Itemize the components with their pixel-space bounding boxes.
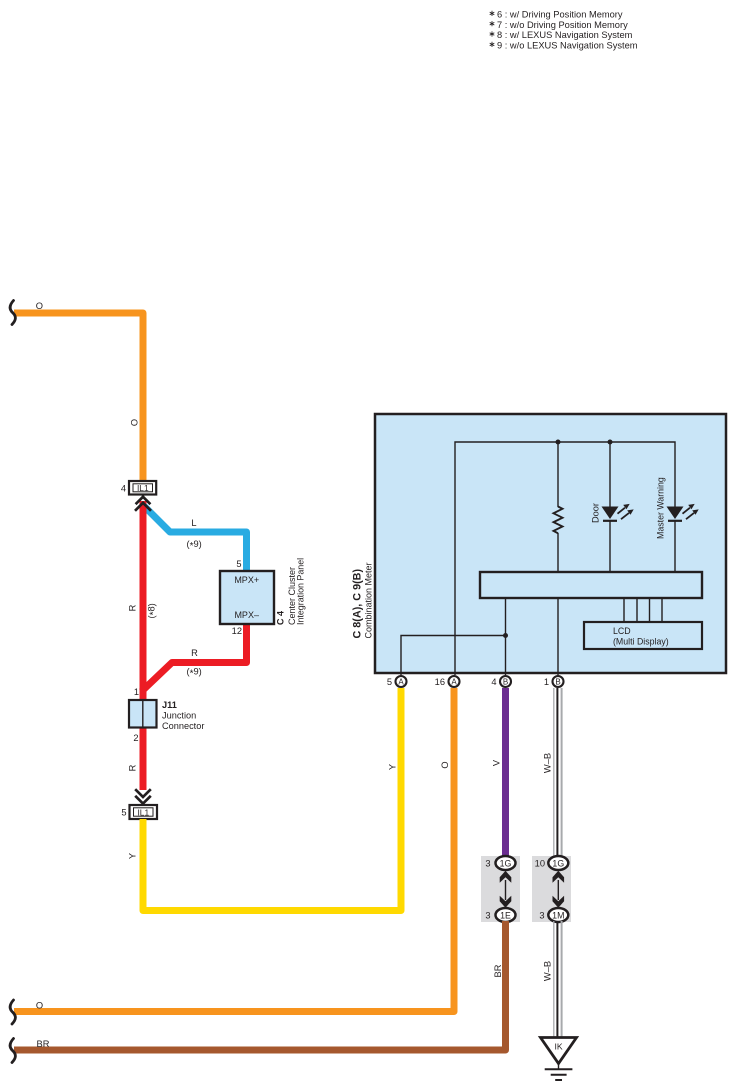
svg-text:R: R [128, 764, 138, 771]
svg-text:Integration Panel: Integration Panel [296, 558, 306, 625]
svg-text:Connector: Connector [162, 721, 204, 731]
ground IK [541, 1038, 577, 1081]
wire BR brown [14, 921, 506, 1050]
LED Door indicator [602, 504, 634, 521]
svg-text:8 : w/ LEXUS Navigation System: 8 : w/ LEXUS Navigation System [497, 30, 633, 40]
svg-text:(Multi Display): (Multi Display) [613, 637, 669, 647]
wire: Door LED leg [609, 442, 611, 507]
svg-text:1G: 1G [500, 858, 512, 868]
wire L blue (*9) [142, 504, 247, 573]
svg-text:V: V [492, 759, 502, 766]
svg-text:1: 1 [544, 677, 549, 687]
svg-text:5: 5 [236, 559, 241, 569]
wire: meter internal top bus [455, 442, 675, 675]
junction connector J11 [129, 700, 204, 731]
svg-text:1E: 1E [500, 910, 511, 920]
svg-text:1G: 1G [552, 858, 564, 868]
svg-text:C 8(A), C 9(B): C 8(A), C 9(B) [352, 569, 364, 639]
svg-text:(*9): (*9) [187, 667, 202, 680]
resistor (meter internal) [554, 507, 563, 534]
LED Master Warning indicator [667, 504, 699, 521]
meter pin circle 5(A) [387, 676, 407, 687]
wire R red from MPX- pin 12 [142, 623, 247, 692]
svg-text:2: 2 [133, 733, 138, 743]
svg-text:10: 10 [535, 858, 545, 868]
svg-text:16: 16 [435, 677, 445, 687]
svg-text:IL1: IL1 [137, 483, 149, 493]
connector oval 1G (right block top) [535, 856, 569, 870]
svg-text:5: 5 [121, 808, 126, 818]
connector block 1G/1E (gray) [481, 856, 520, 922]
svg-text:Door: Door [590, 503, 600, 523]
svg-text:3: 3 [485, 858, 490, 868]
svg-text:Combination Meter: Combination Meter [364, 562, 374, 638]
wire Y yellow [143, 688, 401, 911]
svg-text:B: B [555, 677, 560, 686]
combination meter box C8(A) C9(B) [375, 414, 726, 673]
svg-text:IK: IK [554, 1042, 562, 1052]
wire: Master Warning LED leg [674, 506, 676, 508]
meter pin circle 4(B) [491, 676, 511, 687]
svg-text:IL1: IL1 [137, 807, 149, 817]
svg-text:4: 4 [121, 483, 126, 493]
svg-text:MPX–: MPX– [234, 610, 259, 620]
svg-text:A: A [398, 677, 404, 686]
mating arrows inside 1G/1M block [553, 871, 565, 908]
svg-text:O: O [36, 301, 43, 311]
svg-text:7 : w/o Driving Position Memor: 7 : w/o Driving Position Memory [497, 20, 628, 30]
svg-text:Y: Y [128, 853, 138, 859]
label C 4 Center Cluster Integration Panel [276, 558, 306, 625]
connector oval 1G (left block top) [485, 856, 515, 870]
break symbol bottom-left brown [10, 1039, 15, 1063]
svg-text:R: R [128, 604, 138, 611]
wire: leg from bus bar to pin 1(B) [557, 598, 559, 675]
svg-text:9 : w/o LEXUS Navigation Syste: 9 : w/o LEXUS Navigation System [497, 41, 638, 51]
svg-text:1M: 1M [552, 910, 564, 920]
break symbol top-left [10, 301, 15, 325]
svg-text:W–B: W–B [543, 961, 553, 981]
svg-text:O: O [36, 1000, 43, 1010]
wire: resistor branch leg [557, 442, 559, 507]
connector oval 1M (right block bottom) [539, 908, 568, 922]
svg-text:W–B: W–B [543, 753, 553, 773]
connector block 1G/1M (gray) [532, 856, 571, 922]
svg-text:J11: J11 [162, 700, 177, 710]
svg-text:(*8): (*8) [147, 603, 160, 618]
svg-text:Master Warning: Master Warning [656, 477, 666, 539]
wire O orange top [14, 313, 143, 482]
svg-text:B: B [503, 677, 508, 686]
break symbol bottom-left orange [10, 1000, 15, 1024]
svg-text:12: 12 [232, 626, 242, 636]
svg-text:Junction: Junction [162, 711, 196, 721]
svg-text:3: 3 [485, 910, 490, 920]
wires: bus bar to LCD legs [624, 598, 662, 622]
connector mating arrows (up) below IL1 top [135, 497, 151, 511]
svg-text:C 4: C 4 [276, 611, 286, 625]
svg-text:1: 1 [134, 687, 139, 697]
meter internal bus bar block [480, 572, 702, 598]
meter pin circle 16(A) [435, 676, 460, 687]
wire R red main vertical [140, 501, 147, 790]
svg-text:6 : w/ Driving Position Memory: 6 : w/ Driving Position Memory [497, 10, 623, 20]
connector C4 MPX box [220, 571, 274, 624]
LCD (Multi Display) block [584, 622, 702, 649]
svg-text:R: R [191, 648, 198, 658]
connector IL1 bottom (pin 5) [121, 803, 157, 819]
connector mating arrows (down) above IL1 bottom [135, 789, 151, 803]
svg-text:O: O [440, 761, 450, 768]
connector oval 1E (left block bottom) [485, 908, 515, 922]
node junction dot at Door branch [608, 440, 613, 445]
svg-text:(*9): (*9) [187, 539, 202, 552]
svg-text:Y: Y [388, 764, 398, 770]
wire W-B from pin 1(B) [554, 688, 562, 857]
node junction dot at resistor branch [556, 440, 561, 445]
svg-text:LCD: LCD [613, 626, 631, 636]
wire: leg from bus bar to pin 4(B) [505, 598, 507, 675]
svg-text:BR: BR [493, 964, 503, 977]
wire: branch to pin 5(A) [401, 636, 506, 676]
wire V violet from pin 4(B) [502, 688, 509, 858]
svg-text:4: 4 [491, 677, 496, 687]
svg-text:A: A [451, 677, 457, 686]
wire W-B lower [554, 921, 562, 1038]
mating arrows inside 1G/1E block [500, 871, 512, 908]
legend asterisks [490, 11, 495, 47]
svg-text:O: O [129, 419, 139, 426]
label C 8(A), C 9(B) Combination Meter [352, 562, 374, 638]
meter pin circle 1(B) [544, 676, 564, 687]
svg-text:L: L [191, 518, 196, 528]
connector IL1 top (pin 4) [121, 481, 156, 498]
wire O orange from pin 16(A) [14, 688, 454, 1012]
node junction dot branch 5(A) [503, 633, 508, 638]
svg-text:5: 5 [387, 677, 392, 687]
svg-text:BR: BR [37, 1039, 50, 1049]
svg-text:3: 3 [539, 910, 544, 920]
svg-text:MPX+: MPX+ [234, 575, 259, 585]
